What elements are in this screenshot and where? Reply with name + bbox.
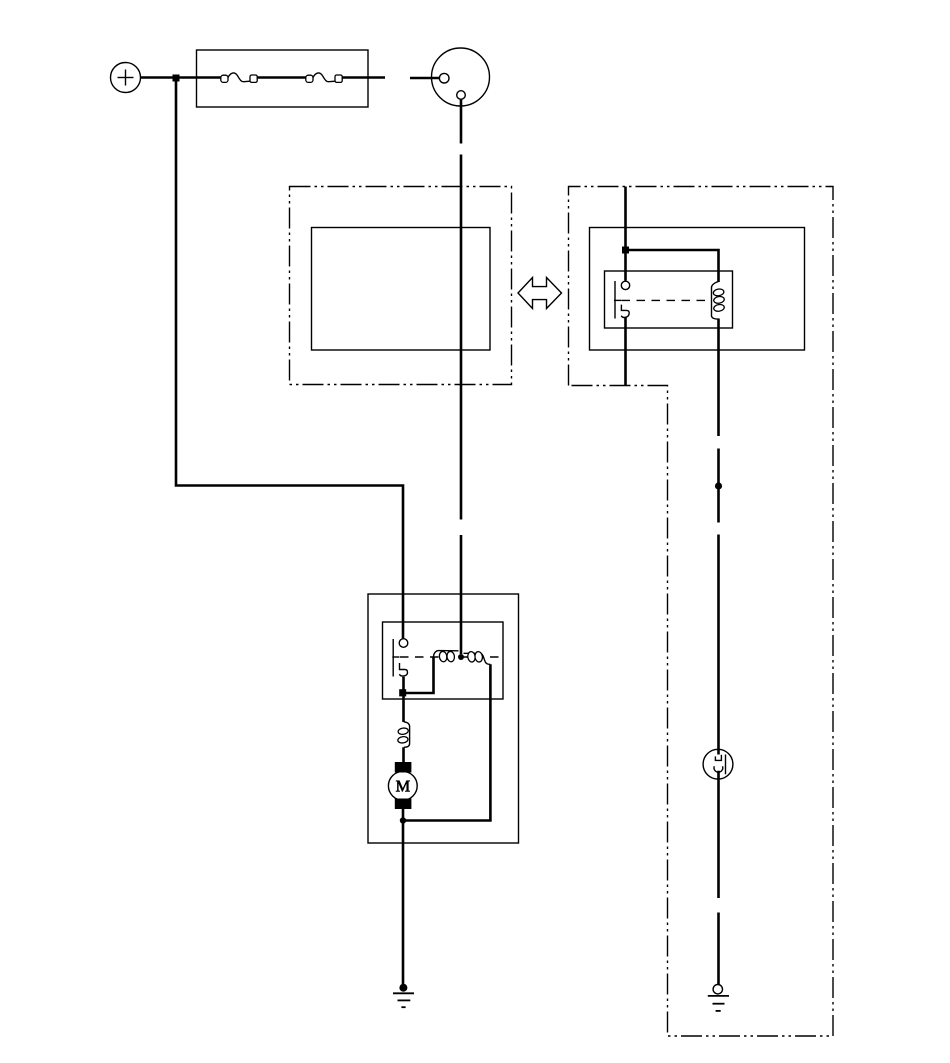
harness boundary box right (dash-dot, notched) (569, 187, 834, 1037)
relay coil return wire segment 2 (717, 449, 720, 523)
component bracket rectangle left (312, 228, 491, 351)
wire break to ignition switch (410, 77, 439, 80)
junction on relay return wire (715, 482, 722, 489)
motor M1 label (396, 781, 410, 792)
wire battery to fuse box (141, 76, 222, 79)
component bracket rectangle right (590, 228, 805, 351)
wire between fuses (257, 76, 306, 79)
relay K1 switch blade (614, 281, 616, 319)
junction battery feed node (173, 75, 180, 82)
relay K1 contact circle (621, 281, 629, 289)
connector female terminal (714, 766, 723, 772)
wire field coil to motor (402, 747, 405, 762)
motor M1 upper brush (395, 762, 412, 773)
solenoid coil rings (439, 651, 483, 663)
relay coil feed wire (626, 250, 719, 282)
relay coil return wire segment 1 (717, 319, 720, 437)
connector J1 (703, 749, 733, 779)
ground right (frame ground) (708, 985, 729, 1011)
starter solenoid switch box (383, 622, 504, 699)
field coil L1 (397, 722, 409, 748)
junction motor low side node (400, 817, 406, 823)
harness boundary box left (dash-dot) (290, 187, 512, 385)
junction solenoid coil node (458, 654, 464, 660)
ignition switch SW1 (432, 48, 490, 106)
solenoid switch blade (392, 639, 394, 677)
relay K1 feed wire (624, 187, 627, 281)
wire battery feed to starter solenoid (176, 78, 403, 638)
relay K1 blade tick (614, 299, 621, 301)
wire ignition switch output segment 1 (460, 100, 463, 144)
alternate-configuration double arrow (518, 278, 562, 309)
solenoid pull-in coil (left half) (434, 651, 459, 658)
wire fuse box to break (342, 76, 385, 79)
junction solenoid output node (399, 689, 406, 696)
wire ignition switch output segment 3 (460, 535, 463, 654)
wire motor to ground junction (402, 809, 405, 988)
relay K1 coil (711, 282, 724, 320)
solenoid mechanical link (dashed) (400, 656, 503, 658)
starter motor unit box (368, 594, 519, 843)
solenoid coil branch wire (thick L) (404, 658, 434, 694)
solenoid coil return wire to motor low side (403, 664, 490, 820)
ground left (body ground) (393, 984, 414, 1008)
connector male terminal (715, 755, 721, 761)
relay K1 mechanical link (dashed) (622, 299, 709, 301)
relay coil return wire segment 3 (717, 535, 720, 755)
solenoid contact circle (399, 639, 408, 648)
solenoid lower contact hook (399, 663, 407, 676)
connector terminal separator (725, 755, 727, 775)
motor M1 lower brush (395, 799, 412, 810)
junction relay feed node (622, 247, 629, 254)
fuse F2 (306, 73, 342, 82)
fuse box (197, 50, 369, 107)
wire solenoid contact to field coil (402, 677, 405, 722)
wire connector to ground segment 2 (717, 913, 720, 985)
starter relay K1 box (605, 271, 733, 328)
fuse F1 (221, 73, 257, 82)
wire ignition switch output segment 2 (460, 155, 463, 520)
motor M1 (388, 771, 417, 800)
battery positive terminal B+ (111, 63, 141, 93)
relay K1 lower contact hook (621, 305, 629, 318)
relay K1 switch output wire (624, 318, 627, 386)
wire connector to ground segment 1 (717, 771, 720, 898)
pin 1 (439, 73, 449, 83)
pin 2 (457, 91, 466, 100)
solenoid blade tick (392, 656, 399, 658)
solenoid hold-in coil (right half) (464, 653, 491, 664)
